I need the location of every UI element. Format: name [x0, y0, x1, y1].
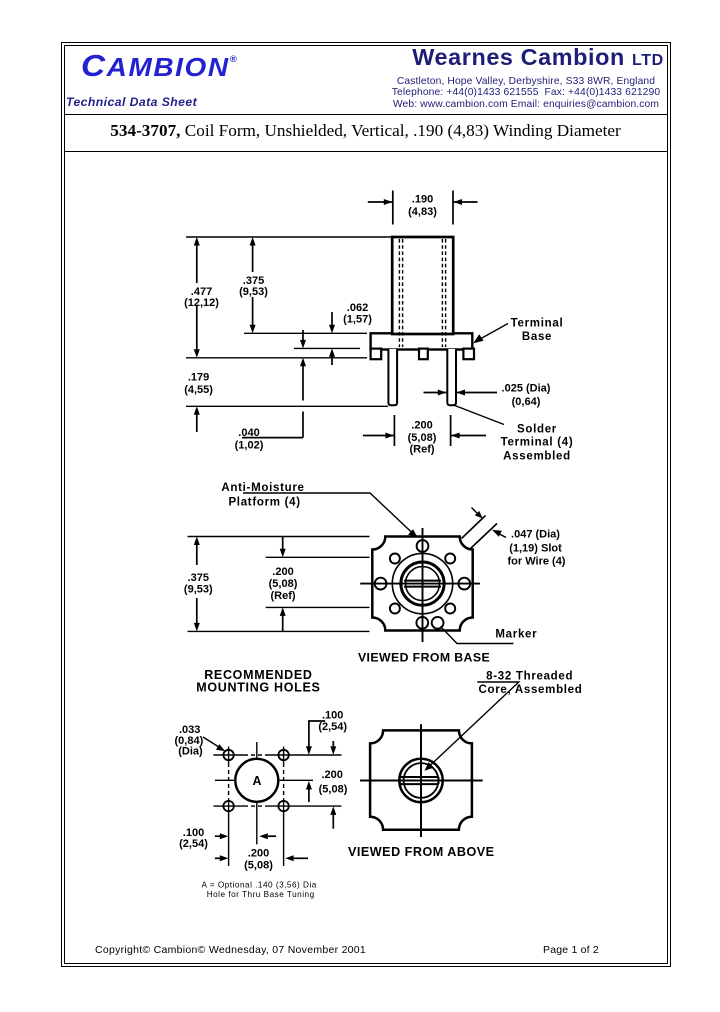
svg-text:A = Optional .140 (3,56) Dia: A = Optional .140 (3,56) Dia	[202, 881, 317, 890]
terminal hole top-right	[445, 554, 455, 564]
right solder pin	[447, 349, 456, 405]
svg-text:(0,64): (0,64)	[512, 396, 541, 408]
title	[65, 121, 666, 141]
svg-text:(12,12): (12,12)	[184, 297, 219, 309]
svg-text:(2,54): (2,54)	[179, 838, 208, 850]
label Marker	[495, 629, 537, 641]
svg-text:Solder: Solder	[517, 423, 557, 435]
vertical centerline (above view)	[420, 724, 422, 837]
wire direction arrow	[472, 508, 483, 519]
dim .062 arrows	[329, 312, 335, 365]
svg-text:Platform (4): Platform (4)	[228, 497, 300, 509]
mounting hole column line right	[283, 747, 285, 866]
svg-text:(4,55): (4,55)	[184, 384, 213, 396]
svg-text:.100: .100	[322, 710, 343, 722]
svg-text:(5,08): (5,08)	[408, 432, 437, 444]
core slot (above view)	[400, 777, 439, 784]
svg-text:.375: .375	[188, 572, 209, 584]
svg-text:Hole for Thru Base Tuning: Hole for Thru Base Tuning	[207, 890, 315, 899]
dim .200 ref arrows	[363, 433, 486, 439]
dim .375 base view extension lines	[188, 537, 370, 632]
svg-text:.047 (Dia): .047 (Dia)	[511, 528, 560, 540]
wire slot hole right	[458, 578, 470, 590]
dim .200 base view text	[269, 566, 298, 602]
dim .200 ref extension lines	[394, 415, 450, 446]
dim .190 text	[408, 193, 437, 218]
label Anti-Moisture Platform	[221, 482, 304, 509]
wire slot hole left	[375, 578, 387, 590]
flange-bottom extension line	[294, 347, 360, 349]
dim .375 line and arrows	[250, 237, 256, 333]
dim .025 text	[502, 383, 551, 409]
mounting hole bottom-left	[223, 801, 233, 811]
terminal hole bottom-right	[445, 604, 455, 614]
base outline viewed from base	[372, 537, 472, 631]
dim .100 bottom text	[179, 827, 208, 850]
dim .200 base view extension lines	[266, 557, 370, 607]
base middle tab	[419, 349, 428, 360]
terminal hole bottom-left	[390, 604, 400, 614]
svg-text:.179: .179	[188, 372, 209, 384]
corner wire slot channel	[462, 516, 498, 549]
svg-text:.190: .190	[412, 193, 433, 205]
dim .200 bottom arrows	[215, 855, 308, 861]
center hole A	[235, 759, 278, 802]
caption VIEWED FROM BASE	[358, 651, 490, 665]
svg-text:(5,08): (5,08)	[269, 578, 298, 590]
svg-text:.040: .040	[238, 427, 259, 439]
mounting hole bottom-right	[278, 801, 288, 811]
svg-text:VIEWED FROM BASE: VIEWED FROM BASE	[358, 651, 490, 665]
Solder Terminal leader	[454, 405, 505, 425]
outer circle platform ring	[392, 553, 452, 613]
caption VIEWED FROM ABOVE	[348, 845, 495, 859]
svg-text:MOUNTING HOLES: MOUNTING HOLES	[196, 681, 320, 695]
center vertical line (mounting)	[256, 742, 258, 844]
label Terminal Base	[511, 318, 564, 343]
dim .200 base view arrows	[280, 537, 286, 631]
svg-text:for Wire (4): for Wire (4)	[508, 556, 566, 568]
tube wall circle	[401, 562, 444, 605]
core outer circle (above view)	[399, 759, 442, 802]
CAMBION logo	[81, 48, 237, 84]
top reference line	[186, 236, 392, 238]
mounting hole row lines bottom	[213, 805, 341, 807]
terminal hole top-left	[390, 554, 400, 564]
horizontal centerline (base view)	[360, 583, 480, 585]
svg-text:Anti-Moisture: Anti-Moisture	[221, 482, 304, 494]
address line 3	[386, 99, 666, 110]
base-top extension line	[244, 332, 367, 334]
svg-text:(4,83): (4,83)	[408, 206, 437, 218]
dim .062 text	[343, 302, 372, 325]
footer page number	[543, 944, 599, 956]
svg-text:(1,57): (1,57)	[343, 313, 372, 325]
Wearnes Cambion LTD	[396, 44, 680, 71]
note optional hole	[202, 881, 317, 899]
svg-text:Assembled: Assembled	[503, 451, 571, 463]
coil body tube	[392, 237, 453, 334]
center horizontal line (mounting)	[215, 779, 313, 781]
mounting hole column line left	[228, 747, 230, 866]
mounting hole top-left	[223, 750, 233, 760]
svg-text:Core, Assembled: Core, Assembled	[478, 684, 582, 696]
svg-text:VIEWED FROM ABOVE: VIEWED FROM ABOVE	[348, 845, 495, 859]
svg-text:(Dia): (Dia)	[178, 746, 203, 758]
dim .100 bottom arrows	[215, 833, 276, 839]
svg-text:(9,53): (9,53)	[239, 286, 268, 298]
left solder pin	[388, 349, 397, 405]
Terminal Base leader	[473, 324, 508, 344]
dim .200 right arrows	[330, 741, 336, 829]
bore circle	[406, 567, 440, 601]
marker hole	[432, 617, 444, 629]
address line 2	[386, 87, 666, 98]
dim .200 bottom text	[244, 847, 273, 871]
svg-text:(5,08): (5,08)	[319, 784, 348, 796]
label Solder Terminal	[501, 423, 574, 462]
Anti-Moisture leader	[243, 493, 418, 537]
mounting hole top-right	[278, 750, 288, 760]
.033 leader	[203, 737, 225, 751]
Marker leader	[441, 627, 514, 644]
core slot lines (base view)	[404, 581, 441, 587]
address line 1	[386, 76, 666, 87]
title divider line	[65, 151, 668, 152]
horizontal centerline (above view)	[360, 780, 483, 782]
svg-text:Terminal: Terminal	[511, 318, 564, 330]
dim .375 base view text	[184, 572, 213, 596]
label .033 dia	[175, 724, 204, 757]
dim .477 text	[184, 286, 219, 309]
dim .375 text	[239, 275, 268, 298]
svg-text:(9,53): (9,53)	[184, 584, 213, 596]
svg-text:(1,19) Slot: (1,19) Slot	[509, 542, 562, 554]
dim .179 arrows	[194, 406, 200, 432]
core inner circle (above view)	[404, 763, 439, 798]
svg-text:(5,08): (5,08)	[244, 860, 273, 872]
dim .040 text	[235, 427, 264, 451]
svg-text:(1,02): (1,02)	[235, 439, 264, 451]
svg-text:.200: .200	[411, 420, 432, 432]
dim .025 arrows	[424, 390, 498, 396]
base left foot	[371, 349, 382, 360]
dim .200 ref text	[408, 420, 437, 456]
wire slot hole bottom	[416, 617, 428, 629]
svg-text:.062: .062	[347, 302, 368, 314]
.047 leader	[492, 530, 506, 538]
wire slot hole top	[417, 540, 429, 552]
header divider line	[65, 114, 668, 115]
pin-bottom reference line	[186, 405, 388, 407]
svg-text:(Ref): (Ref)	[270, 590, 295, 602]
caption RECOMMENDED MOUNTING HOLES	[196, 668, 320, 695]
label A	[252, 774, 261, 788]
label 8-32 Threaded Core	[478, 670, 582, 696]
svg-text:.375: .375	[243, 275, 264, 287]
svg-text:(2,54): (2,54)	[318, 721, 347, 733]
base outline viewed from above	[370, 730, 472, 829]
footer copyright	[95, 944, 366, 956]
page outer border	[61, 42, 671, 967]
svg-text:Terminal (4): Terminal (4)	[501, 437, 574, 449]
dim .040 leader and arrows	[242, 330, 306, 438]
svg-text:Marker: Marker	[495, 629, 537, 641]
svg-text:(Ref): (Ref)	[409, 443, 434, 455]
Technical Data Sheet	[66, 95, 197, 109]
svg-text:Base: Base	[522, 331, 552, 343]
feet-bottom reference line	[186, 357, 367, 359]
terminal base flange (side view)	[371, 333, 473, 349]
svg-text:.200: .200	[321, 769, 342, 781]
svg-text:A: A	[252, 774, 261, 788]
dim .190 extension lines	[393, 191, 453, 225]
dim .375 base view line and arrows	[194, 537, 200, 632]
svg-text:.200: .200	[272, 566, 293, 578]
base right foot	[463, 349, 474, 360]
8-32 leader	[425, 682, 519, 771]
dim .100 top right text	[318, 710, 347, 734]
svg-text:.025 (Dia): .025 (Dia)	[502, 383, 551, 395]
svg-text:8-32 Threaded: 8-32 Threaded	[486, 670, 573, 682]
vertical centerline (base view)	[422, 528, 424, 642]
dim .190 arrows	[368, 199, 478, 205]
mounting hole row lines top	[213, 754, 341, 756]
page inner border	[64, 45, 668, 964]
dim .200 right text	[319, 769, 348, 796]
svg-text:.200: .200	[248, 847, 269, 859]
dim .179 text	[184, 372, 213, 397]
label .047 slot for wire	[508, 528, 566, 567]
bore dashed lines	[399, 239, 445, 347]
dim .100 top right bracket	[306, 721, 325, 802]
dim .477 line and arrows	[194, 237, 200, 358]
